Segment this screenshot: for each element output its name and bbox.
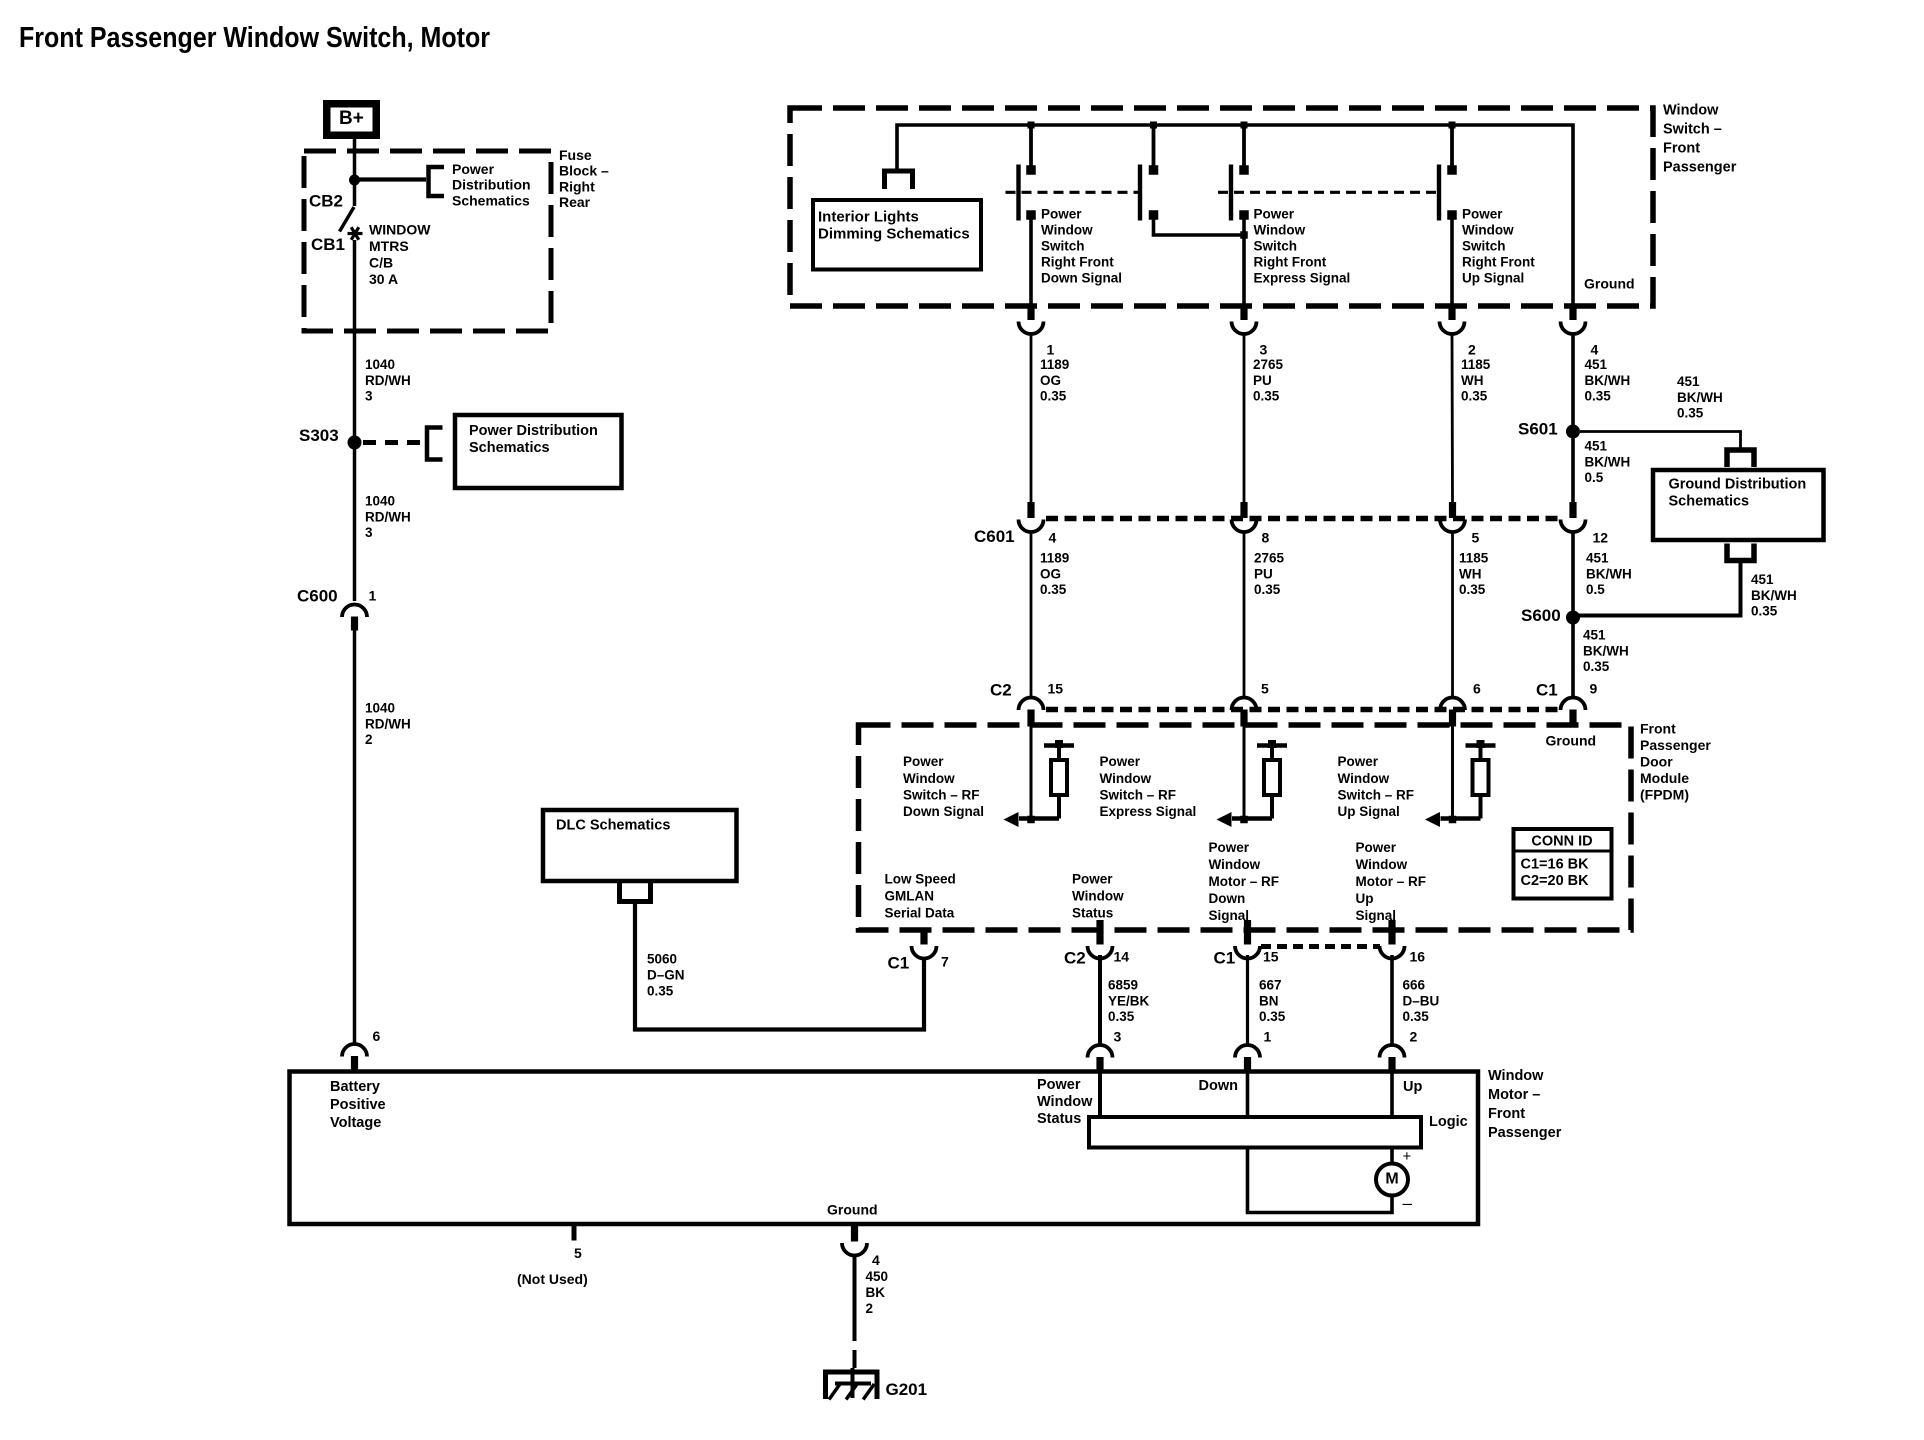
splice S303 [348,436,362,450]
wire C600 to window motor pin 6 [353,631,357,1046]
svg-text:450BK2: 450BK2 [866,1269,889,1316]
svg-text:(Not Used): (Not Used) [517,1271,588,1287]
switch actuator plates [1016,165,1020,221]
svg-text:1189OG0.35: 1189OG0.35 [1040,357,1069,403]
dlc schematics box [543,810,737,881]
connector switch pin 4 ground [1569,304,1576,320]
svg-text:15: 15 [1048,681,1064,697]
wire motor ground dashed [853,1322,857,1368]
svg-text:4: 4 [872,1252,880,1268]
svg-text:C2: C2 [990,681,1012,700]
svg-text:C1: C1 [888,954,910,973]
wire C601-12 to S600 [1571,533,1575,611]
svg-text:7: 7 [941,954,949,970]
bracket to power distribution schematics 2 [427,428,443,460]
svg-text:9: 9 [1590,681,1598,697]
window switch front passenger dashed box [790,108,1653,306]
power symbol B+ [323,100,380,139]
ground distribution schematics box [1653,470,1824,540]
svg-text:PowerWindowSwitch – RFUp Signa: PowerWindowSwitch – RFUp Signal [1338,754,1415,819]
wire S303 to C600 [353,449,357,601]
svg-text:S600: S600 [1521,606,1561,625]
svg-text:WINDOWMTRSC/B30 A: WINDOWMTRSC/B30 A [369,222,431,287]
svg-text:5: 5 [1261,681,1269,697]
resistor down signal [1057,795,1061,819]
wire express-switch output [1242,219,1246,305]
svg-text:PowerWindowMotor – RFDownSigna: PowerWindowMotor – RFDownSignal [1209,840,1280,923]
connector switch pin 2 [1448,304,1455,320]
connector motor pin 2 [1380,1045,1405,1058]
logic block [1089,1117,1421,1148]
svg-text:PowerWindowSwitchRight FrontEx: PowerWindowSwitchRight FrontExpress Sign… [1254,207,1351,286]
svg-text:PowerWindowMotor – RFUpSignal: PowerWindowMotor – RFUpSignal [1356,840,1427,923]
wire 16 to motor pin 2 [1390,955,1394,1046]
svg-text:3: 3 [1260,342,1268,358]
splice S601 [1566,425,1580,439]
svg-text:PowerWindowSwitch – RFExpress: PowerWindowSwitch – RFExpress Signal [1100,754,1197,819]
svg-text:1040RD/WH2: 1040RD/WH2 [365,701,411,747]
connector C601 pin 8 [1240,502,1247,518]
fork to interior lights dimming [885,171,913,189]
arrow up signal [1425,812,1440,827]
arrow express signal [1217,812,1232,827]
svg-text:C2=20 BK: C2=20 BK [1521,873,1590,889]
junction dot express [1240,231,1248,239]
svg-text:CB2: CB2 [309,192,343,211]
svg-text:451BK/WH0.35: 451BK/WH0.35 [1677,374,1723,420]
connector C1 pin 6 [1440,698,1465,711]
svg-text:WindowSwitch –FrontPassenger: WindowSwitch –FrontPassenger [1663,102,1737,175]
svg-text:5060D–GN0.35: 5060D–GN0.35 [647,952,685,999]
svg-text:CONN ID: CONN ID [1531,833,1592,849]
svg-text:4: 4 [1049,530,1057,546]
svg-text:S303: S303 [299,426,339,445]
svg-text:451BK/WH0.35: 451BK/WH0.35 [1583,628,1629,674]
ground symbol G201 [823,1370,880,1375]
svg-text:Down: Down [1199,1078,1238,1094]
wire down signal into module [1030,715,1033,819]
svg-text:Ground: Ground [1584,276,1635,292]
wire C601-8 to C2-5 [1243,533,1246,698]
svg-text:16: 16 [1410,949,1426,965]
connector C2 pin 5 [1232,698,1257,711]
wire C601-4 to C2-15 [1030,533,1033,698]
svg-text:PowerWindowSwitch – RFDown Sig: PowerWindowSwitch – RFDown Signal [903,754,984,819]
connector C1 pin 16 [1388,920,1395,945]
wire up into logic [1390,1073,1394,1117]
connector switch pin 3 [1240,304,1247,320]
svg-text:+: + [1403,1148,1412,1165]
svg-text:Logic: Logic [1429,1114,1468,1130]
connector C1 pin 15 [1244,920,1251,945]
svg-text:1189OG0.35: 1189OG0.35 [1040,551,1069,597]
svg-text:15: 15 [1263,949,1279,965]
wire status into logic [1098,1073,1102,1117]
svg-text:1040RD/WH3: 1040RD/WH3 [365,357,411,403]
connector C2/C1 dotted link [1046,707,1558,713]
wire dlc to C1-7 [635,903,924,1030]
fork to ground distribution top [1727,450,1754,467]
svg-text:PowerDistributionSchematics: PowerDistributionSchematics [452,161,531,208]
svg-text:PowerWindowStatus: PowerWindowStatus [1072,872,1124,921]
svg-text:2765PU0.35: 2765PU0.35 [1254,551,1285,597]
connector motor pin 1 [1235,1045,1260,1058]
front passenger door module dashed box [859,725,1632,930]
connector C1 pin 9 ground [1561,698,1586,711]
wire motor loop to down [1248,1148,1393,1213]
wire S600 to C1-9 [1571,624,1575,698]
svg-text:5: 5 [574,1245,582,1261]
wire motor ground solid [853,1255,857,1322]
svg-text:1: 1 [1264,1029,1272,1045]
svg-text:CB1: CB1 [311,235,345,254]
wire express link pole2 to pole3 [1154,219,1245,235]
power distribution schematics box [455,415,622,488]
svg-text:2: 2 [1468,342,1476,358]
svg-text:Interior LightsDimming Schemat: Interior LightsDimming Schematics [818,208,970,242]
svg-text:1: 1 [1047,342,1055,358]
svg-text:PowerWindowSwitchRight FrontUp: PowerWindowSwitchRight FrontUp Signal [1462,207,1535,286]
wire logic to motor plus [1390,1148,1394,1165]
svg-text:451BK/WH0.35: 451BK/WH0.35 [1751,572,1797,618]
interior lights dimming schematics box [813,200,981,270]
svg-text:12: 12 [1593,530,1609,546]
connector C601 pin 5 [1449,502,1456,518]
svg-text:FuseBlock –RightRear: FuseBlock –RightRear [559,147,609,210]
dashed tap S303 to power distribution [363,440,424,445]
svg-text:8: 8 [1262,530,1270,546]
node CB2 feed junction [349,175,360,186]
svg-text:C600: C600 [297,587,338,606]
svg-text:2: 2 [1410,1029,1418,1045]
wire C2-14 to motor pin 3 [1098,955,1102,1046]
svg-text:14: 14 [1114,949,1130,965]
svg-text:Power DistributionSchematics: Power DistributionSchematics [469,423,598,456]
connector C1 dotted link bottom [1261,944,1380,949]
window motor front passenger box [290,1072,1479,1225]
inline connector C601 dotted link [1046,516,1560,522]
fuse block dashed box [304,151,551,331]
svg-text:6: 6 [1473,681,1481,697]
svg-text:BatteryPositiveVoltage: BatteryPositiveVoltage [330,1079,386,1131]
svg-text:1185WH0.35: 1185WH0.35 [1459,551,1489,597]
svg-text:–: – [1403,1194,1413,1213]
connector C1 pin 7 [920,930,927,945]
svg-text:S601: S601 [1518,420,1558,439]
svg-text:PowerWindowStatus: PowerWindowStatus [1037,1077,1093,1127]
fork from ground distribution bottom [1727,544,1754,561]
svg-text:667BN0.35: 667BN0.35 [1259,978,1286,1024]
svg-text:Ground DistributionSchematics: Ground DistributionSchematics [1669,476,1807,509]
svg-text:M: M [1385,1171,1398,1188]
pin 5 stub not used [572,1224,577,1241]
wire S601 branch to ground distribution [1580,432,1741,450]
bracket to power distribution schematics [429,167,445,196]
svg-text:4: 4 [1591,342,1599,358]
svg-text:Ground: Ground [827,1202,878,1218]
connector motor pin 4 ground [851,1226,858,1242]
svg-text:6859YE/BK0.35: 6859YE/BK0.35 [1108,978,1150,1024]
wire down-switch output [1029,219,1033,305]
wire down into logic [1246,1073,1250,1117]
svg-text:1185WH0.35: 1185WH0.35 [1461,357,1491,403]
arrow down signal [1004,812,1019,827]
svg-text:DLC Schematics: DLC Schematics [556,817,670,833]
svg-text:PowerWindowSwitchRight FrontDo: PowerWindowSwitchRight FrontDown Signal [1041,207,1122,286]
connector C2 pin 14 [1096,920,1103,945]
fork from dlc bottom [620,883,651,902]
svg-text:6: 6 [373,1028,381,1044]
wire up signal into module [1451,715,1454,819]
wire C601-5 to C2-6 [1451,533,1454,698]
svg-text:2765PU0.35: 2765PU0.35 [1253,357,1284,403]
svg-text:C2: C2 [1064,949,1086,968]
svg-text:Ground: Ground [1546,733,1597,749]
svg-text:WindowMotor –FrontPassenger: WindowMotor –FrontPassenger [1488,1068,1562,1141]
wire pin3 to C601 [1243,335,1246,502]
svg-text:C1=16 BK: C1=16 BK [1521,856,1590,872]
wire express signal into module [1243,715,1246,819]
svg-text:Up: Up [1403,1079,1422,1095]
connector C601 pin 12 [1569,502,1576,518]
conn id box [1514,829,1612,899]
svg-text:C1: C1 [1536,681,1558,700]
switch pole feed wires [1029,125,1033,166]
wire B+ to CB2 [353,139,357,206]
connector C601 pin 4 [1027,502,1034,518]
svg-text:B+: B+ [339,108,364,129]
resistor express signal [1270,795,1274,819]
switch mechanical link express-up [1218,191,1437,194]
svg-text:451BK/WH0.5: 451BK/WH0.5 [1585,439,1631,485]
svg-text:G201: G201 [886,1380,928,1399]
svg-text:5: 5 [1472,530,1480,546]
wire CB1 to S303 [353,240,357,436]
switch pole bottom contacts [1026,210,1036,220]
switch mechanical link down-express [1006,191,1139,194]
bus wire B+ inside switch [897,125,1573,305]
switch pole top contacts [1026,165,1036,175]
connector C2 pin 15 [1019,698,1044,711]
bus junction dots [1028,122,1035,129]
wire pin1 to C601 [1030,335,1033,502]
svg-text:1040RD/WH3: 1040RD/WH3 [365,494,411,540]
svg-text:451BK/WH0.5: 451BK/WH0.5 [1586,551,1632,597]
wire pin4 to S601 [1571,335,1575,502]
svg-text:451BK/WH0.35: 451BK/WH0.35 [1585,357,1631,403]
wire tap to power distribution [355,177,427,181]
svg-text:FrontPassengerDoorModule(FPDM): FrontPassengerDoorModule(FPDM) [1640,721,1711,803]
motor M [1376,1164,1408,1196]
connector switch pin 1 [1027,304,1034,320]
splice S600 [1566,611,1580,625]
svg-text:666D–BU0.35: 666D–BU0.35 [1403,978,1440,1024]
svg-text:C1: C1 [1214,949,1236,968]
svg-text:1: 1 [369,588,377,604]
wire C1-15 to motor pin 1 [1246,955,1249,1046]
svg-text:C601: C601 [974,527,1015,546]
svg-text:3: 3 [1114,1029,1122,1045]
circuit breaker asterisk [348,232,363,235]
resistor up signal [1479,795,1483,819]
wire pin2 to C601 [1451,335,1454,502]
connector motor pin 3 [1088,1045,1113,1058]
svg-text:Low SpeedGMLANSerial Data: Low SpeedGMLANSerial Data [885,872,956,921]
wire ground distribution to S600 [1578,562,1741,616]
wire up-switch output [1450,219,1454,305]
circuit breaker CB1 blade [340,207,355,232]
svg-text:Front Passenger Window Switch,: Front Passenger Window Switch, Motor [19,22,490,54]
